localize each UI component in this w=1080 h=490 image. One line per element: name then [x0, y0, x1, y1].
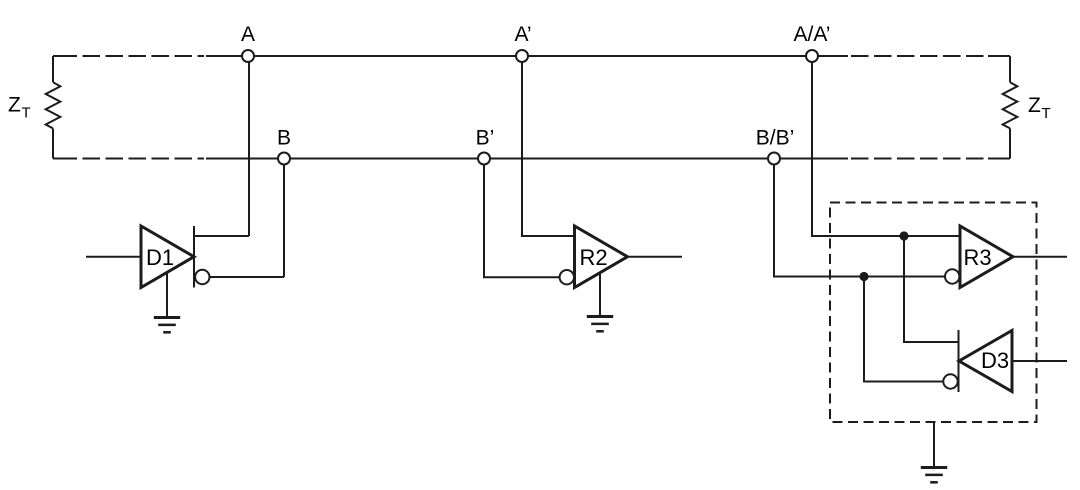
svg-text:R2: R2: [579, 245, 607, 270]
svg-text:D3: D3: [981, 348, 1009, 373]
svg-text:B: B: [277, 127, 291, 150]
svg-text:A: A: [241, 23, 255, 46]
svg-text:Z: Z: [1028, 94, 1041, 117]
svg-text:Z: Z: [8, 94, 21, 117]
svg-text:T: T: [1042, 105, 1051, 122]
svg-text:A’: A’: [514, 23, 531, 46]
svg-text:B’: B’: [476, 127, 495, 150]
svg-text:B/B’: B/B’: [756, 127, 795, 150]
svg-text:R3: R3: [963, 245, 991, 270]
svg-text:D1: D1: [146, 245, 174, 270]
svg-text:T: T: [22, 105, 31, 122]
svg-text:A/A’: A/A’: [794, 23, 831, 46]
